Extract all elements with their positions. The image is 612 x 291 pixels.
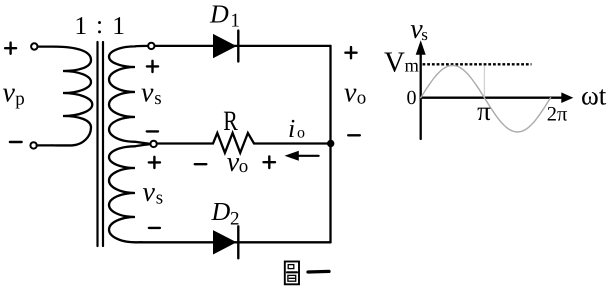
diode D2: [213, 226, 238, 258]
faint guide line at pi: [483, 66, 485, 97]
waveform plot: x-axis: [421, 92, 574, 103]
wire: center tap to resistor R to output node: [157, 133, 331, 153]
svg-text:s: s: [156, 188, 163, 209]
svg-text:v: v: [344, 78, 357, 109]
terminal: primary bottom (circle): [30, 142, 36, 148]
minus sign: primary bottom: [10, 141, 22, 143]
svg-text:p: p: [15, 89, 24, 110]
sine waveform vs: [421, 65, 551, 132]
label vs upper: [141, 78, 162, 110]
label R: [223, 106, 238, 137]
wire: secondary top terminal to D1 and to top-right corner: [155, 45, 331, 47]
diode D1: [213, 31, 238, 62]
wire: right side vertical: [329, 46, 331, 242]
terminal: secondary center tap (circle): [150, 141, 156, 147]
label 0 at origin: [407, 87, 417, 109]
plus sign: secondary lower: [149, 157, 160, 168]
label io: [288, 114, 305, 143]
plus sign: vo across R right: [264, 156, 276, 168]
label Vm: [384, 47, 420, 79]
svg-text:v: v: [141, 78, 154, 109]
plus sign: secondary upper: [147, 61, 158, 72]
minus sign: secondary lower: [149, 227, 160, 229]
terminal: primary top (circle): [31, 43, 37, 49]
svg-text:D: D: [209, 0, 229, 28]
transformer core: [98, 42, 104, 246]
node: output junction dot: [327, 140, 334, 147]
label turns ratio 1:1: [74, 10, 125, 40]
svg-text:1: 1: [74, 11, 87, 40]
wire: primary winding to bottom terminal: [37, 144, 52, 146]
terminal: secondary top (circle): [148, 43, 154, 49]
svg-text:V: V: [384, 47, 405, 79]
transformer secondary winding lower half: [109, 144, 150, 242]
svg-text:2π: 2π: [547, 104, 568, 126]
label 2pi: [547, 104, 568, 126]
svg-text:1: 1: [112, 11, 125, 40]
svg-text:i: i: [288, 114, 295, 143]
svg-text:o: o: [357, 88, 367, 109]
label D1: [209, 0, 240, 32]
transformer primary winding: [52, 47, 92, 146]
wire: primary top terminal to winding: [38, 45, 55, 47]
label vo right: [344, 78, 366, 109]
svg-text:v: v: [143, 177, 156, 208]
svg-text:m: m: [405, 57, 420, 77]
transformer secondary winding upper half: [109, 46, 150, 144]
svg-text:s: s: [154, 88, 161, 109]
figure caption: character 一: [308, 270, 329, 274]
dotted Vm level line: [423, 63, 532, 65]
svg-text:o: o: [239, 156, 249, 177]
svg-text:1: 1: [230, 11, 240, 32]
current arrow io: [285, 151, 319, 161]
svg-text:2: 2: [230, 208, 240, 229]
label D2: [211, 197, 240, 229]
label vp: [3, 78, 25, 110]
minus sign: secondary upper: [147, 130, 158, 132]
svg-text:s: s: [421, 25, 428, 44]
label vs lower: [143, 177, 164, 209]
waveform plot: y-axis: [416, 40, 426, 139]
svg-text:D: D: [211, 197, 231, 226]
plus sign: output top: [345, 47, 356, 58]
label pi: [477, 96, 491, 126]
wire: secondary bottom to D2 and bottom-right corner: [140, 241, 331, 243]
svg-text::: :: [96, 10, 103, 39]
svg-text:π: π: [477, 96, 491, 126]
plus sign: primary top: [5, 43, 16, 54]
svg-text:0: 0: [407, 87, 417, 109]
svg-text:v: v: [3, 78, 16, 109]
label vo across R: [227, 147, 249, 178]
label vs on plot: [410, 14, 428, 45]
figure caption: character 圖: [285, 262, 299, 285]
svg-text:o: o: [297, 125, 305, 142]
svg-text:R: R: [223, 106, 238, 137]
minus sign: vo across R left: [195, 163, 207, 165]
label omega-t: [581, 81, 607, 111]
minus sign: output bottom: [348, 134, 360, 136]
svg-text:ωt: ωt: [581, 81, 607, 111]
